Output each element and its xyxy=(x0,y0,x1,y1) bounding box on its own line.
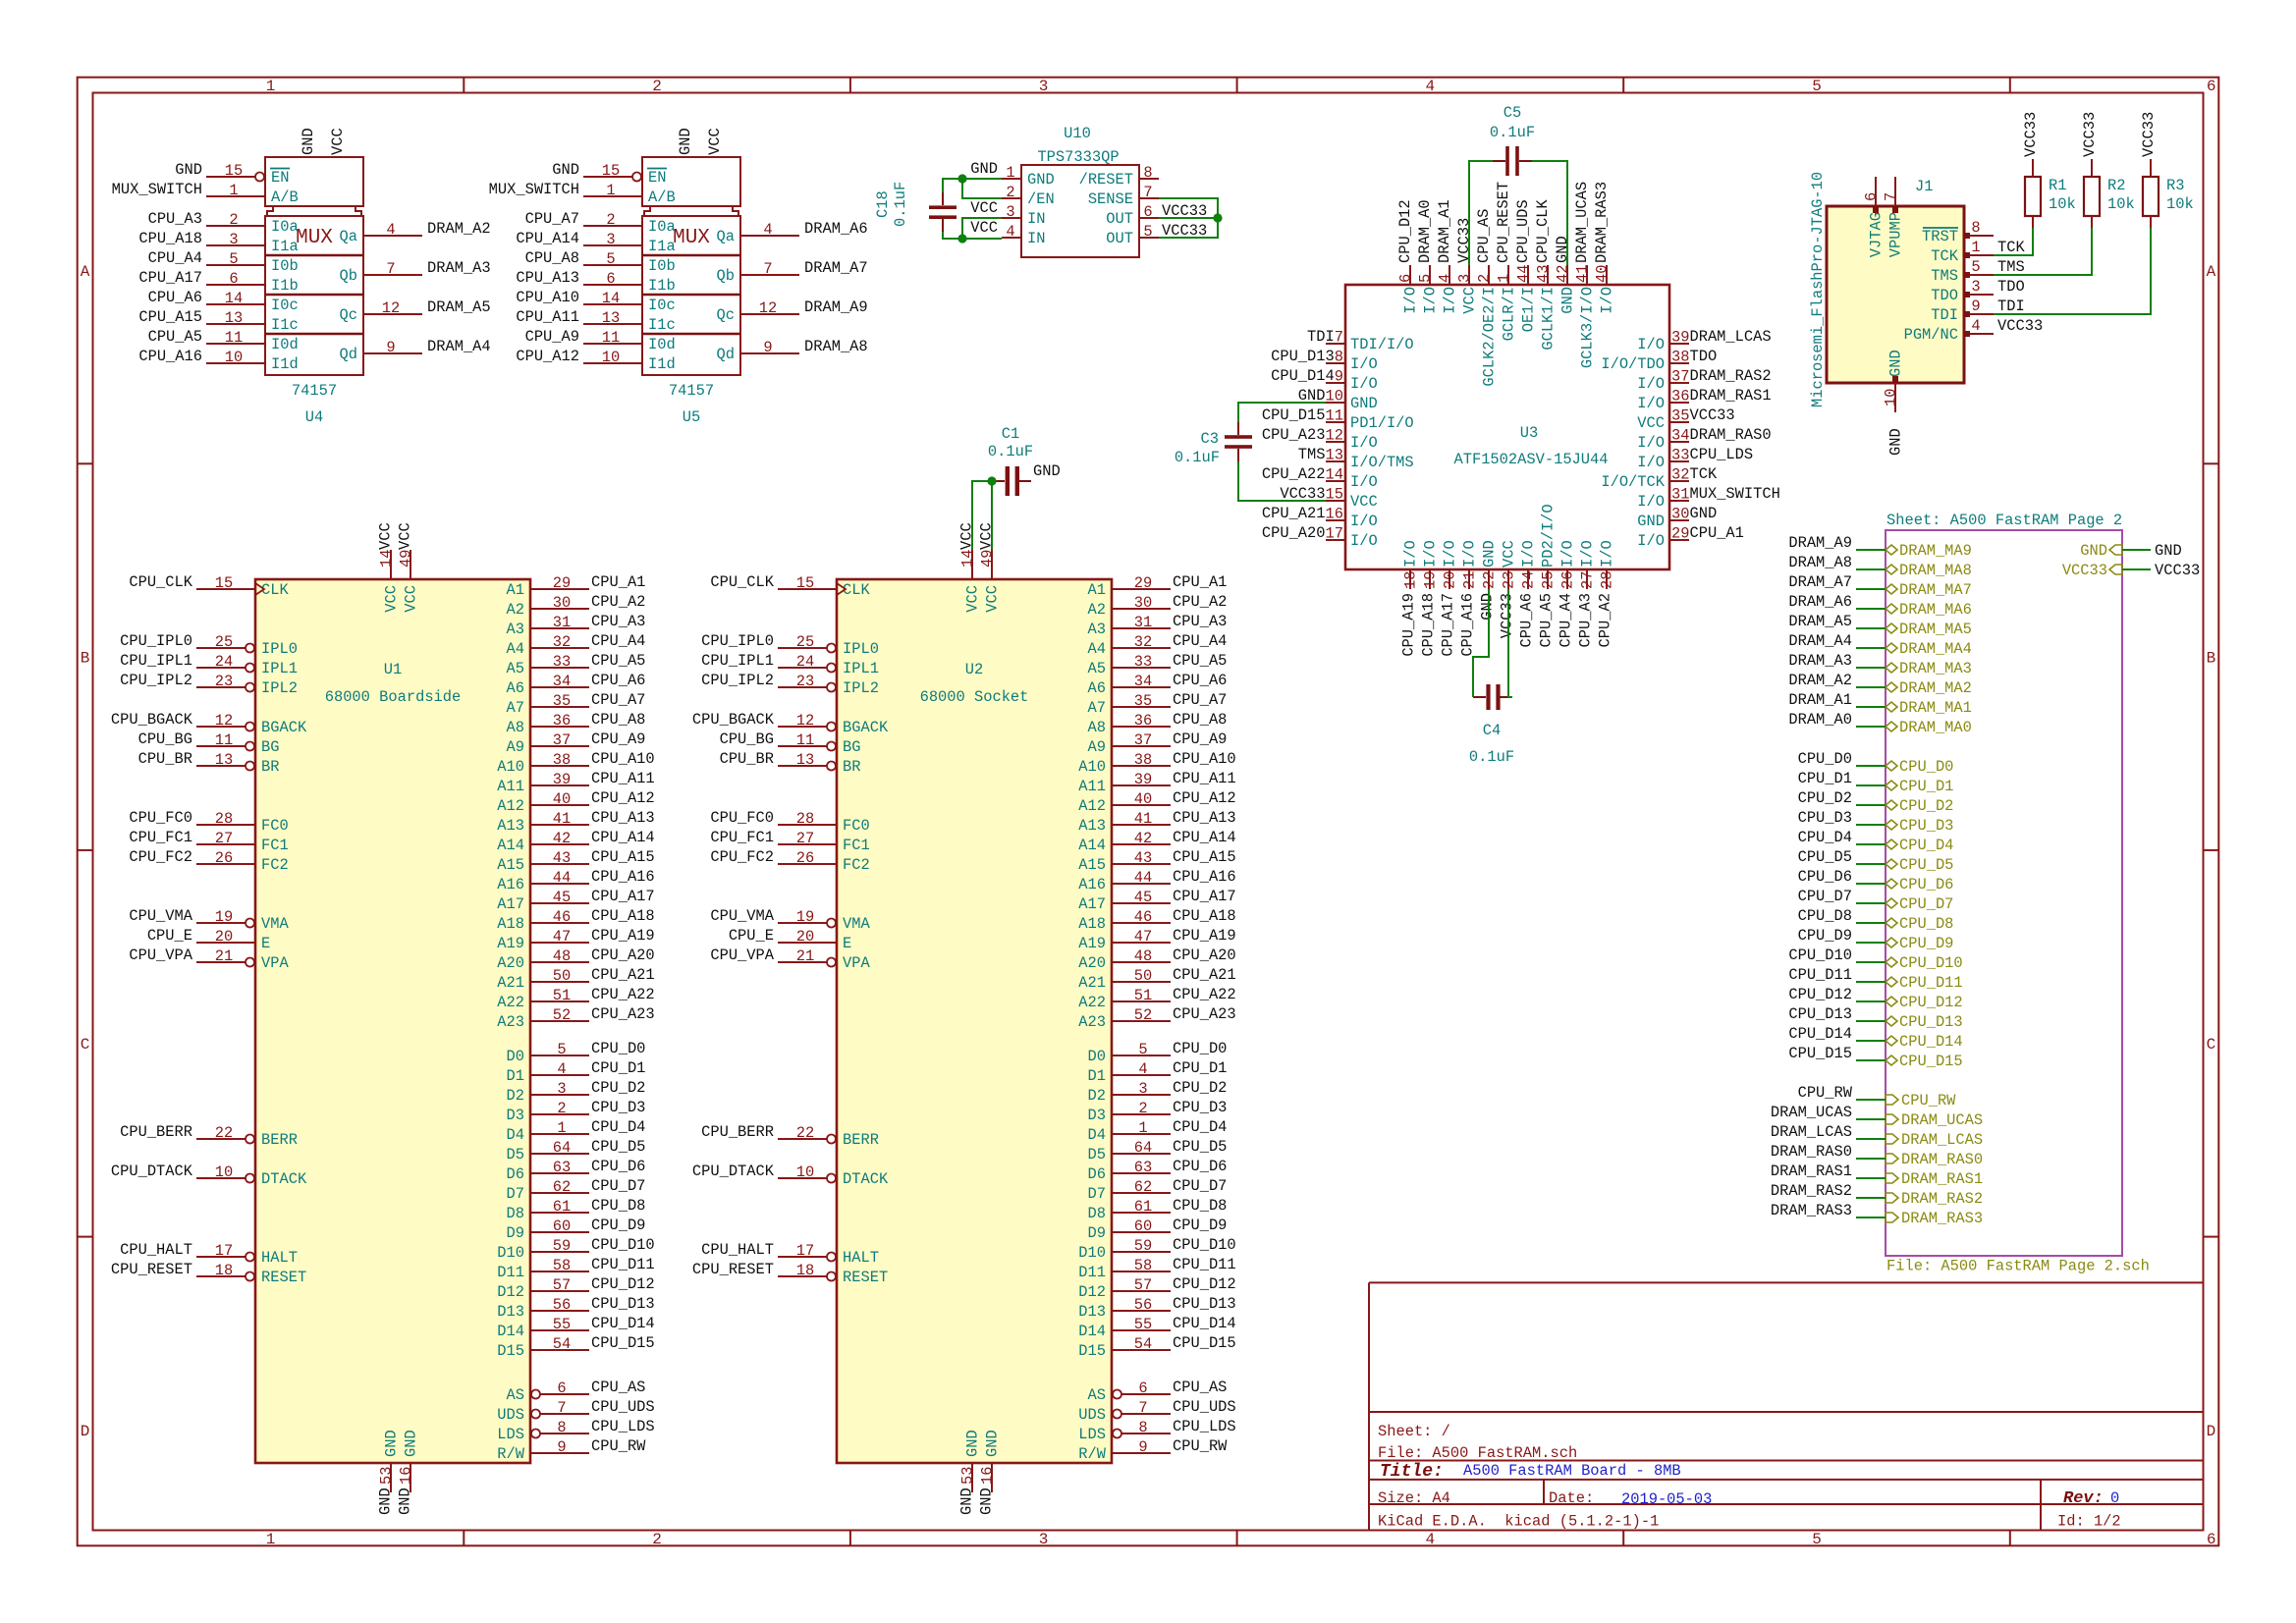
svg-text:RESET: RESET xyxy=(261,1269,306,1286)
svg-text:74157: 74157 xyxy=(669,382,714,400)
U2 body xyxy=(837,579,1112,1463)
svg-text:CPU_A23: CPU_A23 xyxy=(1262,426,1326,444)
U3 pin 33 I/O net CPU_LDS xyxy=(1637,446,1753,471)
svg-text:D0: D0 xyxy=(507,1048,524,1065)
svg-text:EN: EN xyxy=(271,169,289,187)
svg-text:GND: GND xyxy=(1689,505,1717,522)
svg-text:46: 46 xyxy=(1134,908,1152,926)
U1 pin 40 A12 net CPU_A12 xyxy=(497,789,654,815)
svg-text:CPU_A23: CPU_A23 xyxy=(591,1005,655,1023)
svg-text:IN: IN xyxy=(1027,210,1045,228)
svg-text:5: 5 xyxy=(1143,223,1152,241)
svg-text:RESET: RESET xyxy=(843,1269,888,1286)
svg-text:CPU_A1: CPU_A1 xyxy=(1173,573,1227,591)
C1 plates xyxy=(1006,466,1010,496)
svg-text:GND: GND xyxy=(978,1488,996,1515)
svg-text:D7: D7 xyxy=(1088,1185,1106,1203)
svg-text:16: 16 xyxy=(979,1467,997,1485)
R2 bottom pin xyxy=(2091,216,2093,228)
svg-text:IPL2: IPL2 xyxy=(843,679,879,697)
svg-text:GND: GND xyxy=(383,1430,401,1457)
svg-text:I/O: I/O xyxy=(1402,287,1420,314)
svg-text:5: 5 xyxy=(1812,78,1822,95)
U2 power pin 14 VCC (top) xyxy=(958,522,982,612)
svg-text:CPU_A9: CPU_A9 xyxy=(591,730,645,748)
sheet pin DRAM_MA8 net DRAM_A8 xyxy=(1886,562,1972,579)
svg-text:A23: A23 xyxy=(1078,1013,1106,1031)
junction xyxy=(987,476,996,485)
junction xyxy=(1213,213,1222,222)
svg-text:Qc: Qc xyxy=(717,306,735,324)
svg-text:13: 13 xyxy=(796,751,814,769)
U5 pin 11 I0d net CPU_A9 xyxy=(525,328,676,353)
svg-text:DRAM_A4: DRAM_A4 xyxy=(427,338,491,355)
svg-text:CPU_A6: CPU_A6 xyxy=(148,289,202,306)
U1 pin 28 FC0 net CPU_FC0 xyxy=(129,809,288,835)
svg-text:CPU_D2: CPU_D2 xyxy=(1173,1079,1227,1097)
svg-text:12: 12 xyxy=(796,712,814,730)
svg-text:VCC: VCC xyxy=(329,128,347,155)
svg-text:A5: A5 xyxy=(1088,660,1106,677)
U3 pin 13 I/O/TMS net TMS xyxy=(1298,446,1414,471)
svg-text:20: 20 xyxy=(215,928,233,946)
svg-text:0.1uF: 0.1uF xyxy=(1490,124,1535,141)
svg-text:CPU_A19: CPU_A19 xyxy=(1400,593,1418,657)
U1 pin 48 A20 net CPU_A20 xyxy=(497,947,654,972)
svg-text:1: 1 xyxy=(1496,274,1513,283)
svg-text:33: 33 xyxy=(553,653,571,671)
svg-text:GND: GND xyxy=(1479,593,1497,621)
U1 pin 61 D8 net CPU_D8 xyxy=(507,1197,646,1222)
svg-text:FC2: FC2 xyxy=(261,856,289,874)
sheet pin CPU_D12 net CPU_D12 xyxy=(1886,994,1963,1011)
U2 pin 1 D4 net CPU_D4 xyxy=(1088,1118,1228,1144)
svg-text:CPU_A17: CPU_A17 xyxy=(591,888,655,905)
svg-text:CPU_A18: CPU_A18 xyxy=(1420,593,1438,657)
svg-text:9: 9 xyxy=(557,1438,566,1456)
sheet outline xyxy=(1886,530,2122,1256)
svg-text:VCC33: VCC33 xyxy=(1499,593,1516,638)
svg-text:U5: U5 xyxy=(683,408,700,426)
svg-text:A3: A3 xyxy=(1088,621,1106,638)
U1 pin 20 E net CPU_E xyxy=(147,927,270,952)
svg-text:EN: EN xyxy=(648,169,666,187)
svg-text:14: 14 xyxy=(225,290,243,307)
U2 pin 12 BGACK net CPU_BGACK xyxy=(692,711,889,736)
svg-text:29: 29 xyxy=(1671,525,1689,543)
svg-text:IN: IN xyxy=(1027,230,1045,247)
svg-text:I/O: I/O xyxy=(1350,532,1378,550)
svg-text:CPU_AS: CPU_AS xyxy=(1173,1379,1227,1396)
resistor R2 10k xyxy=(2084,159,2135,228)
frame column labels 1-6 top xyxy=(266,78,2216,95)
svg-text:61: 61 xyxy=(1134,1198,1152,1216)
wire CPU_D6 xyxy=(1856,883,1886,885)
svg-text:41: 41 xyxy=(1574,265,1592,283)
svg-text:CPU_AS: CPU_AS xyxy=(591,1379,645,1396)
svg-text:SENSE: SENSE xyxy=(1088,190,1133,208)
svg-text:CPU_D2: CPU_D2 xyxy=(591,1079,645,1097)
svg-text:6: 6 xyxy=(1143,203,1152,221)
C5 right pin xyxy=(1519,160,1532,162)
svg-text:A14: A14 xyxy=(1078,837,1106,854)
sheet pin CPU_D0 net CPU_D0 xyxy=(1886,758,1953,776)
svg-text:CPU_A7: CPU_A7 xyxy=(591,691,645,709)
svg-text:I/O: I/O xyxy=(1637,532,1665,550)
svg-text:37: 37 xyxy=(553,731,571,749)
svg-text:CPU_D6: CPU_D6 xyxy=(1173,1158,1227,1175)
svg-text:39: 39 xyxy=(553,771,571,788)
svg-text:VMA: VMA xyxy=(843,915,870,933)
wire CPU_D4 xyxy=(1856,843,1886,845)
svg-text:14: 14 xyxy=(602,290,620,307)
svg-text:MUX_SWITCH: MUX_SWITCH xyxy=(1689,485,1779,503)
U1 pin 35 A7 net CPU_A7 xyxy=(507,691,646,717)
svg-text:7: 7 xyxy=(557,1399,566,1417)
svg-text:40: 40 xyxy=(1594,265,1612,283)
svg-text:VCC33: VCC33 xyxy=(2062,562,2107,579)
svg-text:CPU_A9: CPU_A9 xyxy=(525,328,579,346)
svg-text:31: 31 xyxy=(1671,486,1689,504)
svg-text:I1d: I1d xyxy=(648,355,676,373)
svg-text:CPU_D12: CPU_D12 xyxy=(1173,1275,1236,1293)
svg-text:CPU_A6: CPU_A6 xyxy=(1518,593,1536,647)
U2 pin 18 RESET net CPU_RESET xyxy=(692,1261,888,1286)
svg-text:A: A xyxy=(81,263,90,281)
svg-text:CPU_D8: CPU_D8 xyxy=(1798,907,1852,925)
sheet pin DRAM_MA0 net DRAM_A0 xyxy=(1886,719,1972,736)
svg-text:17: 17 xyxy=(796,1242,814,1260)
U3 pin 32 I/O/TCK net TCK xyxy=(1601,465,1718,491)
svg-text:D4: D4 xyxy=(1088,1126,1106,1144)
U4 pin 11 I0d net CPU_A5 xyxy=(148,328,299,353)
svg-text:KiCad E.D.A. kicad (5.1.2-1)-: KiCad E.D.A. kicad (5.1.2-1)-1 xyxy=(1378,1513,1659,1531)
J1 pin 5 TMS net TMS xyxy=(1931,258,2024,285)
U1 pin 52 A23 net CPU_A23 xyxy=(497,1005,654,1031)
svg-text:10k: 10k xyxy=(2107,195,2135,213)
J1 body xyxy=(1827,206,1964,383)
svg-text:IPL0: IPL0 xyxy=(261,640,298,658)
svg-text:CPU_D14: CPU_D14 xyxy=(1899,1033,1963,1051)
U1 pin 55 D14 net CPU_D14 xyxy=(497,1315,654,1340)
wire CPU_D1 xyxy=(1856,784,1886,786)
svg-text:CPU_D7: CPU_D7 xyxy=(1173,1177,1227,1195)
svg-text:C3: C3 xyxy=(1201,430,1219,448)
svg-text:24: 24 xyxy=(1520,571,1538,589)
svg-text:File: A500 FastRAM.sch: File: A500 FastRAM.sch xyxy=(1378,1444,1577,1462)
U3 pin 15 VCC net VCC33 xyxy=(1280,485,1377,511)
svg-text:6: 6 xyxy=(1138,1380,1147,1397)
svg-text:A6: A6 xyxy=(507,679,524,697)
svg-text:9: 9 xyxy=(386,339,395,356)
svg-text:I0b: I0b xyxy=(271,257,299,275)
svg-text:28: 28 xyxy=(796,810,814,828)
U1 pin 47 A19 net CPU_A19 xyxy=(497,927,654,952)
U3 pin 22 GND net GND xyxy=(1479,540,1499,620)
U3 pin 18 I/O net CPU_A19 xyxy=(1400,540,1420,656)
svg-text:55: 55 xyxy=(1134,1316,1152,1333)
svg-text:D12: D12 xyxy=(1078,1283,1106,1301)
svg-text:CPU_A18: CPU_A18 xyxy=(1173,907,1236,925)
svg-text:CPU_IPL1: CPU_IPL1 xyxy=(120,652,192,670)
svg-text:CPU_D2: CPU_D2 xyxy=(1798,789,1852,807)
svg-text:22: 22 xyxy=(1481,571,1499,589)
svg-text:DTACK: DTACK xyxy=(843,1170,889,1188)
svg-text:TDO: TDO xyxy=(1689,348,1717,365)
svg-text:TDI/I/O: TDI/I/O xyxy=(1350,336,1414,353)
svg-text:DRAM_A5: DRAM_A5 xyxy=(427,298,491,316)
svg-text:VCC: VCC xyxy=(377,522,395,550)
R1 top pin xyxy=(2032,159,2034,177)
svg-text:MUX_SWITCH: MUX_SWITCH xyxy=(489,181,579,198)
svg-text:Sheet: /: Sheet: / xyxy=(1378,1423,1450,1440)
svg-text:DRAM_A9: DRAM_A9 xyxy=(1788,534,1852,552)
svg-text:A5: A5 xyxy=(507,660,524,677)
svg-text:GND: GND xyxy=(397,1488,414,1515)
svg-text:36: 36 xyxy=(1671,388,1689,406)
svg-text:CPU_E: CPU_E xyxy=(147,927,192,945)
svg-text:CPU_A14: CPU_A14 xyxy=(591,829,655,846)
svg-text:15: 15 xyxy=(215,574,233,592)
svg-text:DRAM_RAS0: DRAM_RAS0 xyxy=(1901,1151,1983,1168)
svg-text:9: 9 xyxy=(1138,1438,1147,1456)
svg-text:B: B xyxy=(2207,650,2216,668)
svg-text:CPU_LDS: CPU_LDS xyxy=(591,1418,655,1435)
C5 left pin xyxy=(1493,160,1505,162)
svg-text:I/O: I/O xyxy=(1350,355,1378,373)
wire CPU_D13 xyxy=(1856,1020,1886,1022)
U4 pin 3 I1a net CPU_A18 xyxy=(138,230,298,255)
U2 pin 59 D10 net CPU_D10 xyxy=(1078,1236,1235,1262)
svg-text:BR: BR xyxy=(261,758,279,776)
svg-text:Title:: Title: xyxy=(1380,1462,1444,1482)
U5 pin 13 I1c net CPU_A11 xyxy=(516,308,675,334)
U5 pin 5 I0b net CPU_A8 xyxy=(525,249,676,275)
svg-text:PD1/I/O: PD1/I/O xyxy=(1350,414,1414,432)
U3 pin 25 PD2/I/O net CPU_A5 xyxy=(1538,504,1558,647)
U3 pin 35 VCC net VCC33 xyxy=(1637,406,1734,432)
U4 pin 13 I1c net CPU_A15 xyxy=(138,308,298,334)
svg-text:CPU_A15: CPU_A15 xyxy=(1173,848,1236,866)
svg-text:CPU_A14: CPU_A14 xyxy=(516,230,579,247)
J1 pin 1 TCK net TCK xyxy=(1931,239,2025,265)
U5 pin 12 Qc net DRAM_A9 xyxy=(717,298,868,324)
svg-text:CPU_D14: CPU_D14 xyxy=(1788,1025,1852,1043)
svg-text:CPU_A19: CPU_A19 xyxy=(591,927,655,945)
svg-text:D8: D8 xyxy=(1088,1205,1106,1222)
svg-text:CPU_DTACK: CPU_DTACK xyxy=(692,1163,775,1180)
svg-text:CPU_A5: CPU_A5 xyxy=(591,652,645,670)
svg-text:11: 11 xyxy=(602,329,620,347)
svg-text:R2: R2 xyxy=(2107,177,2125,194)
svg-text:A23: A23 xyxy=(497,1013,524,1031)
CPLD U3 ATF1502ASV-15JU44 xyxy=(1262,182,1780,657)
svg-text:18: 18 xyxy=(215,1262,233,1279)
svg-text:23: 23 xyxy=(215,673,233,690)
svg-text:I/O: I/O xyxy=(1422,287,1440,314)
svg-text:MUX_SWITCH: MUX_SWITCH xyxy=(112,181,202,198)
wire CPU_D9 xyxy=(1856,942,1886,944)
J1 pin 7 VPUMP (top) xyxy=(1883,177,1905,257)
svg-text:UDS: UDS xyxy=(1078,1406,1106,1424)
wire CPU_D12 xyxy=(1856,1001,1886,1002)
svg-text:0.1uF: 0.1uF xyxy=(1175,449,1220,466)
U1 pin 12 BGACK net CPU_BGACK xyxy=(111,711,307,736)
svg-text:CPU_A23: CPU_A23 xyxy=(1173,1005,1236,1023)
U1 pin 31 A3 net CPU_A3 xyxy=(507,613,646,638)
svg-text:DRAM_LCAS: DRAM_LCAS xyxy=(1771,1123,1852,1141)
svg-text:FC1: FC1 xyxy=(261,837,289,854)
svg-text:6: 6 xyxy=(1397,274,1415,283)
svg-text:D5: D5 xyxy=(1088,1146,1106,1163)
U1 pin 23 IPL2 net CPU_IPL2 xyxy=(120,672,298,697)
svg-text:34: 34 xyxy=(1671,427,1689,445)
U1 pin 41 A13 net CPU_A13 xyxy=(497,809,654,835)
svg-text:GND: GND xyxy=(1027,171,1055,189)
U3 pin 39 I/O net DRAM_LCAS xyxy=(1637,328,1771,353)
svg-text:3: 3 xyxy=(557,1080,566,1098)
svg-text:I/O: I/O xyxy=(1350,473,1378,491)
svg-text:CPU_A4: CPU_A4 xyxy=(1558,593,1575,647)
svg-text:CPU_D3: CPU_D3 xyxy=(1798,809,1852,827)
U2 pin 45 A17 net CPU_A17 xyxy=(1078,888,1235,913)
svg-text:/EN: /EN xyxy=(1027,190,1055,208)
U4 pin 12 Qc net DRAM_A5 xyxy=(340,298,491,324)
svg-text:I1a: I1a xyxy=(648,238,676,255)
svg-text:3: 3 xyxy=(1138,1080,1147,1098)
svg-text:D: D xyxy=(2207,1423,2216,1440)
svg-text:10k: 10k xyxy=(2049,195,2076,213)
svg-text:CPU_CLK: CPU_CLK xyxy=(710,573,774,591)
svg-text:A12: A12 xyxy=(1078,797,1106,815)
svg-text:DRAM_A2: DRAM_A2 xyxy=(1788,672,1852,689)
U2 pin 32 A4 net CPU_A4 xyxy=(1088,632,1228,658)
svg-text:DRAM_RAS0: DRAM_RAS0 xyxy=(1771,1143,1852,1161)
svg-text:CPU_A8: CPU_A8 xyxy=(1173,711,1227,729)
svg-text:BG: BG xyxy=(843,738,860,756)
svg-text:CPU_FC2: CPU_FC2 xyxy=(710,848,774,866)
U4 pin 2 I0a net CPU_A3 xyxy=(148,210,299,236)
svg-text:GND: GND xyxy=(552,161,579,179)
svg-text:BERR: BERR xyxy=(261,1131,298,1149)
svg-text:VCC: VCC xyxy=(984,585,1002,613)
svg-text:E: E xyxy=(261,935,270,952)
U1 power pin 14 VCC (top) xyxy=(377,522,401,612)
svg-text:DRAM_MA2: DRAM_MA2 xyxy=(1899,679,1972,697)
U3 pin 34 I/O net DRAM_RAS0 xyxy=(1637,426,1771,452)
svg-text:Qb: Qb xyxy=(717,267,735,285)
U3 pin 31 I/O net MUX_SWITCH xyxy=(1637,485,1780,511)
frame row labels A-D right xyxy=(2207,263,2216,1440)
svg-text:CPU_A10: CPU_A10 xyxy=(1173,750,1236,768)
svg-text:21: 21 xyxy=(796,947,814,965)
svg-text:VCC: VCC xyxy=(970,219,998,237)
U1 pin 6 AS net CPU_AS xyxy=(507,1379,646,1404)
svg-text:CPU_D6: CPU_D6 xyxy=(591,1158,645,1175)
svg-text:33: 33 xyxy=(1671,447,1689,464)
svg-text:C: C xyxy=(81,1036,90,1054)
U3 pin 24 I/O net CPU_A6 xyxy=(1518,540,1538,647)
U3 pin 20 I/O net CPU_A17 xyxy=(1440,540,1459,656)
svg-text:I1c: I1c xyxy=(271,316,299,334)
wire CPU_D0 xyxy=(1856,765,1886,767)
U5 pin 9 Qd net DRAM_A8 xyxy=(717,338,868,363)
svg-text:CPU_A12: CPU_A12 xyxy=(591,789,655,807)
wire TDI to R3 xyxy=(1994,228,2151,314)
svg-text:43: 43 xyxy=(1535,265,1553,283)
wire C5 to GND pin42 xyxy=(1532,161,1567,265)
svg-text:VCC: VCC xyxy=(1501,540,1518,568)
U3 pin 19 I/O net CPU_A18 xyxy=(1420,540,1440,656)
svg-text:3: 3 xyxy=(1971,278,1980,296)
sheet pin CPU_D15 net CPU_D15 xyxy=(1886,1053,1963,1070)
svg-text:CPU_FC0: CPU_FC0 xyxy=(129,809,192,827)
svg-text:10k: 10k xyxy=(2166,195,2194,213)
connector J1 Microsemi_FlashPro-JTAG-10 xyxy=(1809,172,2043,412)
svg-text:CPU_HALT: CPU_HALT xyxy=(701,1241,774,1259)
svg-text:0.1uF: 0.1uF xyxy=(892,182,909,227)
svg-text:48: 48 xyxy=(553,947,571,965)
U1 pin 34 A6 net CPU_A6 xyxy=(507,672,646,697)
svg-text:9: 9 xyxy=(763,339,772,356)
svg-text:51: 51 xyxy=(1134,987,1152,1004)
svg-text:CPU_A12: CPU_A12 xyxy=(516,348,579,365)
svg-text:0.1uF: 0.1uF xyxy=(988,443,1033,460)
U3 pin 30 GND net GND xyxy=(1637,505,1717,530)
svg-text:D12: D12 xyxy=(497,1283,524,1301)
U2 pin 35 A7 net CPU_A7 xyxy=(1088,691,1228,717)
U3 pin 43 GCLK1/I net CPU_CLK xyxy=(1534,199,1558,351)
svg-text:CPU_D11: CPU_D11 xyxy=(591,1256,655,1273)
sheet pin DRAM_LCAS net DRAM_LCAS xyxy=(1886,1131,1983,1149)
U4 upper body (EN/A-B section) xyxy=(265,157,363,206)
svg-text:2: 2 xyxy=(1138,1100,1147,1117)
U3 pin 10 GND net GND xyxy=(1298,387,1378,412)
sheet pin DRAM_MA4 net DRAM_A4 xyxy=(1886,640,1972,658)
sheet pin DRAM_MA5 net DRAM_A5 xyxy=(1886,621,1972,638)
svg-text:60: 60 xyxy=(553,1217,571,1235)
svg-text:DRAM_RAS1: DRAM_RAS1 xyxy=(1689,387,1771,405)
svg-text:50: 50 xyxy=(1134,967,1152,985)
U1 pin 56 D13 net CPU_D13 xyxy=(497,1295,654,1321)
svg-text:Qd: Qd xyxy=(717,346,735,363)
svg-text:CPU_A1: CPU_A1 xyxy=(591,573,645,591)
C5 plates xyxy=(1505,146,1509,176)
junction xyxy=(957,174,966,183)
svg-text:20: 20 xyxy=(796,928,814,946)
sheet pin DRAM_MA1 net DRAM_A1 xyxy=(1886,699,1972,717)
svg-text:68000 Boardside: 68000 Boardside xyxy=(325,688,462,706)
wire VCC33 pin3 to C5 xyxy=(1469,161,1493,265)
svg-text:CPU_D10: CPU_D10 xyxy=(1788,947,1852,964)
svg-text:63: 63 xyxy=(1134,1159,1152,1176)
svg-text:CPU_D4: CPU_D4 xyxy=(1173,1118,1227,1136)
U5 upper body (EN/A-B section) xyxy=(642,157,740,206)
svg-text:CPU_D13: CPU_D13 xyxy=(1173,1295,1236,1313)
U5 pin 1 A/B net MUX_SWITCH xyxy=(489,181,676,206)
U4 pin 4 Qa net DRAM_A2 xyxy=(340,220,491,245)
svg-text:CPU_IPL0: CPU_IPL0 xyxy=(701,632,774,650)
U5 pin 2 I0a net CPU_A7 xyxy=(525,210,676,236)
svg-text:GND: GND xyxy=(1554,236,1571,263)
U4 section divider lines xyxy=(265,254,363,257)
sheet pin CPU_D13 net CPU_D13 xyxy=(1886,1013,1963,1031)
C3 bottom pin xyxy=(1237,449,1239,461)
svg-text:CPU_FC1: CPU_FC1 xyxy=(710,829,774,846)
voltage regulator U10 TPS7333QP xyxy=(1002,125,1159,257)
svg-text:2: 2 xyxy=(606,211,615,229)
svg-text:D1: D1 xyxy=(507,1067,524,1085)
